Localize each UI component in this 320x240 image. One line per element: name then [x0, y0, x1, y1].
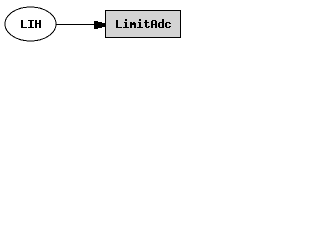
background [0, 0, 184, 48]
label LimitAdc [116, 19, 171, 28]
wire LIH to LimitAdc [56, 24, 96, 25]
arrowhead [94, 21, 105, 29]
node LIH (ellipse) [5, 7, 56, 41]
node LimitAdc (box) [106, 11, 181, 38]
label LIH [21, 20, 41, 28]
